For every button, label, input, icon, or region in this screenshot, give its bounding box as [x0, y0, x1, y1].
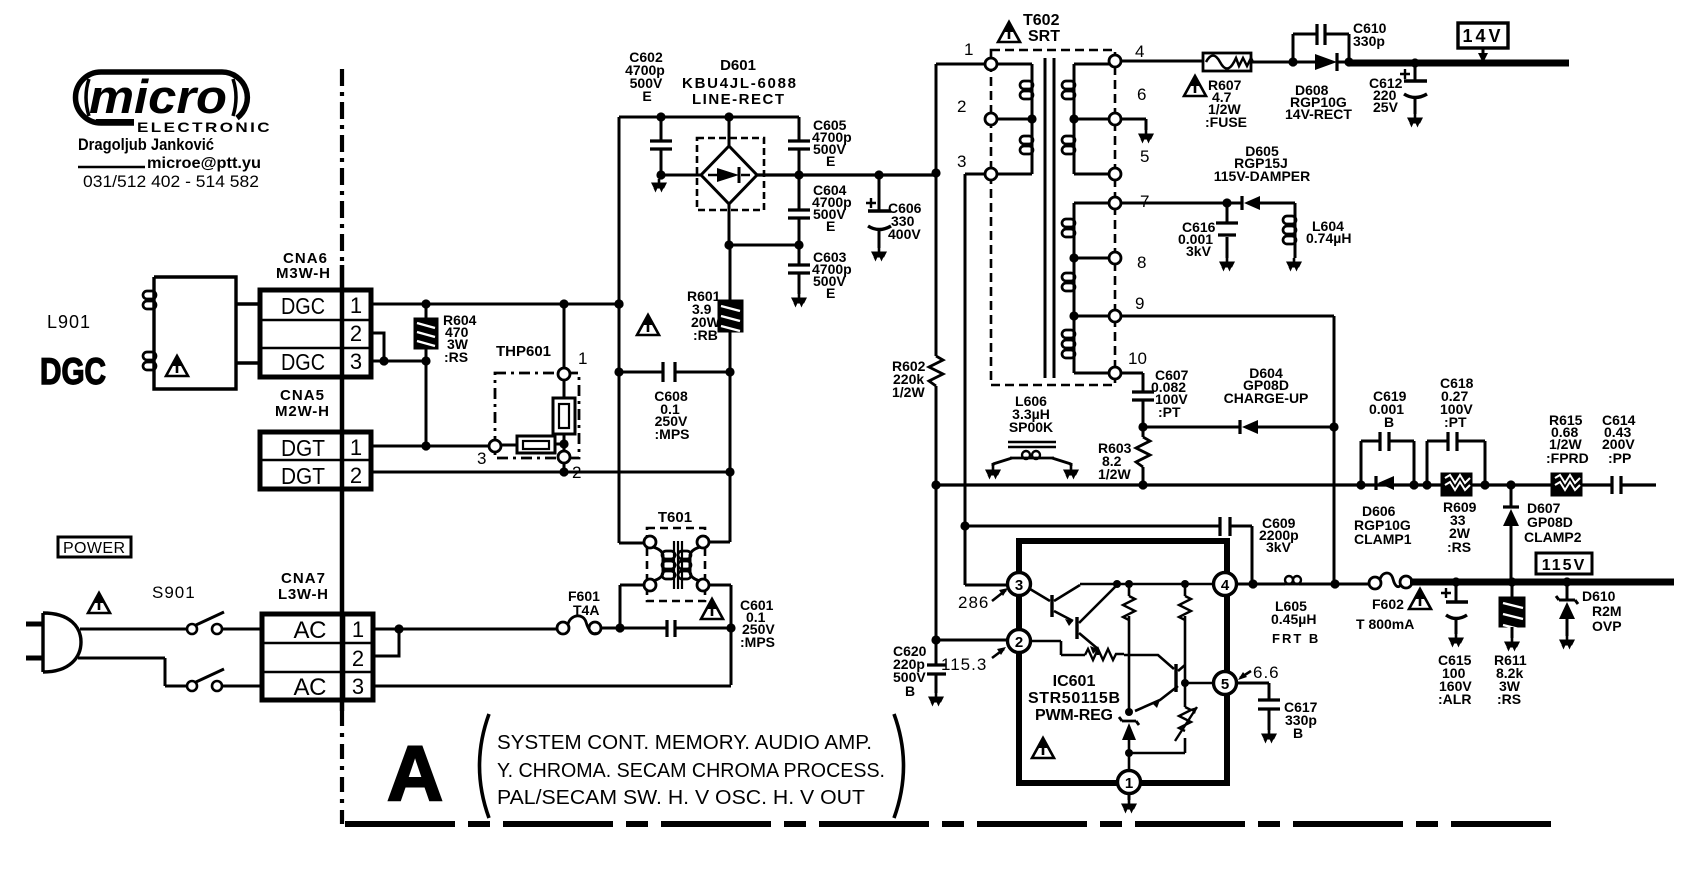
warning triangle R607	[1184, 76, 1206, 96]
svg-text:115V-DAMPER: 115V-DAMPER	[1214, 168, 1310, 184]
svg-text:M2W-H: M2W-H	[275, 403, 329, 420]
svg-text:T4A: T4A	[573, 602, 599, 618]
node dot DGC1 junction on x619 handled	[614, 299, 623, 308]
svg-text::FPRD: :FPRD	[1546, 450, 1589, 466]
svg-text::PT: :PT	[1158, 404, 1181, 420]
ground at pin6	[1138, 130, 1154, 144]
wire pin7 to D605	[1121, 202, 1242, 205]
wire L605 row	[1236, 583, 1369, 586]
fusible resistor R607	[1203, 53, 1251, 71]
node dot C602 top	[656, 112, 665, 121]
svg-text:5: 5	[1140, 147, 1149, 166]
ground at L606 right	[1063, 466, 1079, 480]
diode D604 charge-up	[1143, 426, 1240, 429]
node dot THP601 pin2 on DGT2	[559, 467, 568, 476]
arrow 6.6 to pin5	[1240, 671, 1251, 678]
warning triangle S901	[88, 593, 110, 613]
transistor Q1 inside	[1030, 589, 1050, 601]
pin circle T601 bottom-left	[644, 579, 656, 591]
arrow 115.3 to pin2	[992, 649, 1004, 658]
ground at C603	[791, 294, 807, 308]
svg-text:L901: L901	[47, 312, 91, 332]
node dot C604 bottom	[794, 240, 803, 249]
svg-text:microe@ptt.yu: microe@ptt.yu	[147, 155, 261, 172]
wire top AC rail	[619, 116, 799, 119]
logo inner parens	[86, 79, 89, 116]
node dot R609 right	[1480, 480, 1489, 489]
switch S901 bottom	[187, 681, 197, 691]
pin circle T602-8	[1109, 252, 1121, 264]
wire pin3 link to IC	[965, 584, 1008, 587]
arrow from 14V box to bus	[1482, 48, 1485, 54]
node dot internal rail c	[1181, 580, 1189, 588]
fuse F602	[1369, 577, 1381, 589]
svg-text:T602: T602	[1023, 12, 1060, 29]
svg-text:2: 2	[350, 463, 362, 488]
transistor Q2 inside	[1075, 617, 1078, 639]
wire R601 column	[709, 245, 730, 542]
node dot C609 bottom	[1248, 579, 1257, 588]
ground at C616	[1219, 258, 1235, 272]
node dot T601 left leg	[615, 623, 624, 632]
capacitor C619 bridging D606	[1361, 441, 1414, 485]
diode D607 clamp2	[1510, 485, 1513, 507]
svg-text::ALR: :ALR	[1438, 691, 1471, 707]
svg-text:SRT: SRT	[1028, 28, 1060, 45]
svg-text:3: 3	[957, 152, 966, 171]
node dot AC1	[394, 624, 403, 633]
capacitor C616	[1226, 203, 1229, 258]
svg-text:E: E	[826, 285, 835, 301]
warning triangle in L901	[166, 356, 188, 376]
connector CNA7 box	[262, 614, 373, 700]
inductor L605	[1285, 583, 1299, 586]
capacitor C610 bypass	[1293, 34, 1349, 62]
node dot DGC1 at column	[614, 299, 623, 308]
degauss coil L901 outline	[154, 277, 260, 389]
node dot R604 on DGT1	[421, 441, 430, 450]
wire DGT2 long	[371, 471, 730, 474]
ground at D610	[1559, 636, 1575, 650]
zener diode D610	[1566, 582, 1569, 600]
pin circle T601 top-left	[644, 536, 656, 548]
svg-text:LINE-RECT: LINE-RECT	[692, 91, 784, 108]
resistor R604 vertical wire	[425, 304, 428, 446]
svg-text::FUSE: :FUSE	[1205, 114, 1247, 130]
capacitor C606 electrolytic	[878, 175, 881, 248]
IC U601 box	[1019, 541, 1227, 783]
wire C602 to bridge left	[661, 174, 701, 177]
warning triangle near C601	[701, 599, 723, 619]
svg-text:286: 286	[958, 593, 989, 612]
resistor internal R-a	[1128, 584, 1131, 712]
node dot DGC2 hook	[379, 356, 388, 365]
capacitor C601	[667, 620, 675, 637]
svg-text:2: 2	[350, 321, 362, 346]
parenthesis left	[480, 714, 490, 818]
pin circle IC-2	[1008, 630, 1031, 653]
svg-text:2: 2	[1015, 634, 1023, 651]
connector CNA6 box	[260, 290, 371, 377]
ground at C612	[1407, 114, 1423, 128]
node dot R611	[1507, 577, 1516, 586]
transformer T601 dashed box	[647, 528, 705, 601]
svg-text::RS: :RS	[444, 349, 468, 365]
node dot D608 out	[1344, 57, 1353, 66]
wire dash-dot left border vertical bottom	[340, 711, 344, 824]
svg-text:B: B	[905, 683, 915, 699]
fuse F601	[557, 622, 569, 634]
svg-text:T 800mA: T 800mA	[1356, 616, 1414, 632]
zener diode internal	[1119, 717, 1139, 725]
svg-text:D601: D601	[720, 57, 756, 74]
pin circle T602-10	[1109, 367, 1121, 379]
svg-text:5: 5	[1221, 676, 1229, 693]
wire bridge top stem	[728, 117, 731, 146]
wire pin5 to C617	[1236, 683, 1269, 700]
svg-text:1/2W: 1/2W	[892, 384, 925, 400]
ground at C620	[928, 693, 944, 707]
resistor R611 body	[1511, 582, 1514, 597]
svg-text:2: 2	[352, 646, 364, 671]
node dot main bus top	[931, 168, 940, 177]
svg-text:micro: micro	[89, 70, 227, 123]
node dot C608 left	[614, 367, 623, 376]
svg-text:AC: AC	[294, 617, 327, 644]
wire AC3 return	[373, 685, 731, 688]
pin circle T602-1	[985, 58, 997, 70]
svg-text:POWER: POWER	[63, 540, 125, 557]
svg-text:0.74µH: 0.74µH	[1306, 230, 1351, 246]
svg-text:IC601: IC601	[1053, 673, 1096, 690]
svg-text:2: 2	[957, 97, 966, 116]
pin circle THP601 pin3	[489, 440, 501, 452]
node dot bottom rail	[1125, 749, 1133, 757]
node dot C605 bottom	[794, 170, 803, 179]
wire F601 to C601	[601, 627, 666, 630]
capacitor C608	[619, 371, 730, 374]
node dot D604 right	[1329, 422, 1338, 431]
resistor R609 body	[1441, 473, 1472, 496]
diode inside D601	[708, 174, 750, 177]
svg-text:E: E	[826, 218, 835, 234]
svg-text:1: 1	[964, 40, 973, 59]
svg-text:DGT: DGT	[281, 463, 325, 489]
label POWER box	[58, 537, 131, 557]
svg-text:3kV: 3kV	[1186, 243, 1212, 259]
ground at L606 left	[985, 466, 1001, 480]
pin circle T602-6	[1109, 113, 1121, 125]
node dot THP601 junction	[559, 439, 568, 448]
connector CNA5 box	[260, 432, 371, 489]
wire pin9 loop to output	[1121, 316, 1334, 584]
label 115V box	[1536, 553, 1592, 574]
THP601 PTC element	[563, 380, 566, 444]
pin circle T602-4	[1109, 55, 1121, 67]
svg-text::PP: :PP	[1608, 450, 1631, 466]
node dot C610 left	[1288, 57, 1297, 66]
resistor R601 body	[718, 300, 743, 332]
node dot T602 pin2 tap	[1027, 114, 1036, 123]
T602 core	[1045, 58, 1054, 378]
capacitor C612 electrolytic	[1414, 63, 1417, 114]
pin circle T602-2	[985, 113, 997, 125]
svg-text:CLAMP2: CLAMP2	[1524, 529, 1582, 545]
T601 left winding	[653, 547, 663, 581]
logo micro electronic oval	[76, 72, 248, 123]
transformer T602 dashed box	[991, 50, 1115, 385]
inductor L606 spook	[1008, 442, 1056, 447]
node dot T602 pin9 tap	[1069, 311, 1078, 320]
wire pin2 internal	[1030, 641, 1085, 655]
svg-text:ELECTRONIC: ELECTRONIC	[137, 119, 272, 135]
wire dash-dot bottom border	[345, 821, 1551, 827]
wire dash-dot left border vertical top	[340, 69, 344, 265]
svg-text:25V: 25V	[1373, 99, 1399, 115]
svg-text:031/512 402 - 514 582: 031/512 402 - 514 582	[83, 173, 259, 191]
wire THP601 pin1 from top wire	[563, 304, 566, 368]
THP601 pin2	[563, 444, 566, 472]
pin circle T602-5	[1109, 168, 1121, 180]
svg-text:CNA5: CNA5	[280, 387, 324, 404]
svg-text:3: 3	[350, 349, 362, 374]
capacitor C605	[798, 117, 801, 175]
node dot C602 bottom	[656, 170, 665, 179]
capacitor C609	[965, 526, 1252, 584]
wire T601 bottom-left leg	[620, 585, 644, 628]
pin circle IC-5	[1214, 672, 1237, 695]
svg-text::MPS: :MPS	[655, 426, 690, 442]
wire pin1 ground	[1128, 793, 1131, 800]
svg-text:CNA7: CNA7	[281, 570, 325, 587]
label 14V box	[1458, 23, 1508, 48]
pin circle T601 top-right	[697, 536, 709, 548]
node dot C601 right	[726, 623, 735, 632]
node dot D606 right	[1409, 480, 1418, 489]
pin circle THP601 pin2	[558, 451, 570, 463]
wire return rail y485	[936, 483, 1656, 486]
bridge rectifier D601 diamond	[701, 146, 757, 204]
svg-text:4: 4	[1135, 42, 1144, 61]
svg-text:GP08D: GP08D	[1527, 514, 1573, 530]
node dot DGC1-R604	[421, 299, 430, 308]
node dot D610	[1562, 577, 1571, 586]
svg-text:AC: AC	[294, 674, 327, 701]
diode D608	[1315, 54, 1337, 70]
node dot C606 top	[874, 170, 883, 179]
svg-text::PT: :PT	[1444, 414, 1467, 430]
node dot C615	[1451, 577, 1460, 586]
svg-text:0.45µH: 0.45µH	[1271, 611, 1316, 627]
AC plug symbol	[26, 613, 81, 672]
node dot C609 tap	[960, 521, 969, 530]
wire pin1 to main bus column	[936, 64, 985, 173]
pin circle IC-1	[1118, 771, 1141, 794]
wire to IC pin2	[936, 639, 1008, 642]
wire DGC2 hook	[371, 333, 384, 361]
node dot C607 bottom	[1138, 422, 1147, 431]
warning triangle F602	[1409, 589, 1431, 609]
svg-text:PAL/SECAM SW. H. V OSC. H. V O: PAL/SECAM SW. H. V OSC. H. V OUT	[497, 786, 865, 809]
node dot pin9 column bottom	[1330, 579, 1339, 588]
parenthesis right	[894, 714, 904, 818]
ground at C617	[1261, 730, 1277, 744]
ground at C606	[871, 248, 887, 262]
svg-text:14V-RECT: 14V-RECT	[1285, 106, 1352, 122]
svg-text:M3W-H: M3W-H	[276, 265, 330, 282]
svg-text:8: 8	[1137, 253, 1146, 272]
svg-text:F602: F602	[1372, 596, 1404, 612]
svg-text:6.6: 6.6	[1253, 663, 1280, 682]
wire pin6 ground stub	[1121, 119, 1146, 130]
capacitor C615 electrolytic	[1455, 582, 1458, 634]
wire plug to switch top	[80, 628, 186, 631]
svg-text:330p: 330p	[1353, 33, 1385, 49]
IC601 internal top rail	[1080, 583, 1214, 586]
wire T601 bottom-right leg	[709, 585, 731, 685]
node dot internal rail b	[1125, 580, 1133, 588]
node dot D607 top	[1506, 480, 1515, 489]
wire DGT1 to THP601 pin3	[371, 445, 489, 448]
svg-text:B: B	[1293, 725, 1303, 741]
T602 secondary winding upper	[1074, 64, 1109, 174]
node dot C616 top	[1222, 198, 1231, 207]
capacitor C602	[660, 117, 663, 175]
pin circle T602-3	[985, 168, 997, 180]
svg-text:1: 1	[350, 435, 362, 460]
wire DGC1 to bridge column	[371, 303, 619, 306]
arrow 286 to pin3	[992, 590, 1006, 601]
svg-text:E: E	[826, 153, 835, 169]
wire AC1 to F601	[373, 628, 557, 631]
ground at IC pin1	[1121, 800, 1137, 814]
svg-text:3: 3	[477, 449, 486, 468]
T602 secondary winding lower	[1074, 203, 1109, 373]
wire AC2 hook	[373, 629, 399, 656]
svg-text:4: 4	[1221, 577, 1230, 594]
svg-text:D610: D610	[1582, 588, 1616, 604]
svg-text:FRT B: FRT B	[1272, 631, 1320, 646]
svg-text:A: A	[387, 729, 443, 817]
svg-text:14V: 14V	[1462, 26, 1503, 46]
node dot C608 right	[725, 367, 734, 376]
svg-text:DGT: DGT	[281, 435, 325, 461]
pin circle THP601 pin1	[558, 368, 570, 380]
wire R607 to D608	[1251, 61, 1315, 64]
pin circle IC-4	[1214, 573, 1237, 596]
resistor R604 body	[414, 318, 438, 349]
svg-text:R2M: R2M	[1592, 603, 1622, 619]
svg-text:S901: S901	[152, 583, 196, 602]
node dot C618 left	[1422, 480, 1431, 489]
svg-text:400V: 400V	[888, 226, 921, 242]
svg-text:KBU4JL-6088: KBU4JL-6088	[682, 75, 796, 92]
node dot R604 bottom on DGC3	[421, 356, 430, 365]
svg-text:B: B	[1384, 414, 1394, 430]
wire bridge bottom to cap column	[729, 244, 799, 247]
capacitor C620	[935, 640, 938, 693]
svg-text:THP601: THP601	[496, 343, 551, 360]
svg-text:1: 1	[578, 349, 587, 368]
capacitor C614	[1612, 476, 1621, 494]
wire pin4 to R607	[1121, 60, 1203, 63]
capacitor C618 bridging R609	[1427, 441, 1485, 485]
capacitor C604	[798, 175, 801, 245]
svg-text:1: 1	[352, 617, 364, 642]
node dot zener top	[1125, 708, 1133, 716]
svg-text:1/2W: 1/2W	[1098, 466, 1131, 482]
svg-text:E: E	[642, 88, 651, 104]
pin circle T601 bottom-right	[697, 579, 709, 591]
transistor Q3 inside	[1174, 664, 1177, 692]
resistor R615 body	[1551, 473, 1582, 496]
wire pin10 to C607	[1121, 373, 1143, 392]
pin circle T602-7	[1109, 197, 1121, 209]
variable resistor internal	[1184, 683, 1187, 707]
wire pin3 to IC column	[965, 174, 985, 585]
svg-text:3: 3	[352, 674, 364, 699]
ground at C602	[651, 179, 667, 193]
pin circle IC-3	[1008, 573, 1031, 596]
wire 115V bus thick	[1410, 579, 1674, 586]
svg-text:L3W-H: L3W-H	[278, 586, 328, 603]
node dot bridge bottom	[724, 240, 733, 249]
node dot DGC1-THP1	[559, 299, 568, 308]
svg-text:1: 1	[350, 293, 362, 318]
svg-text:1: 1	[1125, 775, 1133, 792]
wire internal bottom link	[1129, 738, 1185, 753]
diode D605	[1240, 196, 1243, 210]
svg-text:OVP: OVP	[1592, 618, 1622, 634]
wire DGC3	[371, 360, 426, 363]
svg-text:6: 6	[1137, 85, 1146, 104]
svg-text:SP00K: SP00K	[1009, 419, 1053, 435]
resistor R603	[1142, 427, 1145, 485]
warning triangle T602	[998, 22, 1020, 42]
inductor L604	[1294, 203, 1297, 258]
wire left column x619	[619, 117, 644, 543]
node dot bridge top	[724, 112, 733, 121]
node dot C612	[1410, 58, 1419, 67]
warning triangle near R601	[637, 315, 659, 335]
resistor R602 zigzag	[929, 356, 943, 386]
svg-text::RB: :RB	[693, 327, 718, 343]
T601 core lines	[674, 541, 682, 589]
svg-text:T601: T601	[658, 509, 692, 526]
svg-text:Y. CHROMA. SECAM CHROMA PROCES: Y. CHROMA. SECAM CHROMA PROCESS.	[497, 759, 885, 782]
underline before email	[78, 166, 145, 168]
node dot T602 pin6 tap	[1069, 114, 1078, 123]
T601 right winding	[690, 547, 700, 581]
svg-text:115.3: 115.3	[941, 655, 987, 674]
capacitor C607	[1132, 392, 1154, 400]
resistor internal horizontal	[1085, 649, 1124, 660]
node dot pin5 junction	[1181, 679, 1189, 687]
svg-text:SYSTEM CONT. MEMORY. AUDIO AMP: SYSTEM CONT. MEMORY. AUDIO AMP.	[497, 731, 872, 754]
wire pin2 feed column	[935, 485, 938, 640]
ground at L604	[1286, 258, 1302, 272]
svg-text:3kV: 3kV	[1266, 539, 1292, 555]
T602 primary winding	[997, 64, 1032, 174]
node dot C620 top	[931, 635, 940, 644]
resistor internal R-b	[1184, 584, 1187, 683]
wire bridge bottom stem	[728, 204, 731, 245]
svg-text::RS: :RS	[1497, 691, 1521, 707]
node dot T602 pin8 tap	[1069, 253, 1078, 262]
svg-text:DGC: DGC	[40, 351, 106, 392]
wire left border solid through connectors	[340, 265, 345, 711]
node dot internal rail a	[1113, 580, 1121, 588]
